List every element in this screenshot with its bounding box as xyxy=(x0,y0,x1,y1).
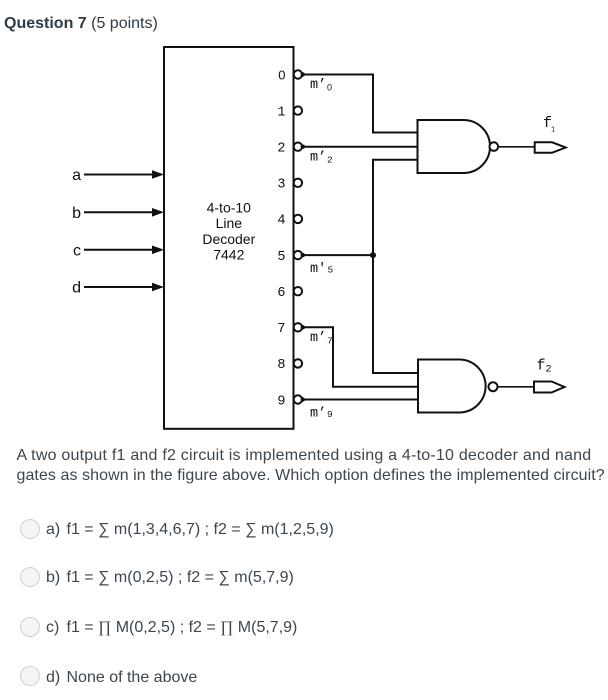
svg-text:b: b xyxy=(72,205,81,222)
svg-text:a: a xyxy=(72,167,81,184)
svg-text:0: 0 xyxy=(278,67,285,82)
svg-text:8: 8 xyxy=(277,358,285,373)
svg-text:0: 0 xyxy=(327,82,332,92)
svg-text:9: 9 xyxy=(327,409,333,420)
svg-text:7442: 7442 xyxy=(213,247,244,263)
svg-text:Decoder: Decoder xyxy=(202,231,255,247)
svg-text:m’: m’ xyxy=(310,331,326,346)
svg-text:d: d xyxy=(72,280,81,297)
svg-text:Line: Line xyxy=(216,215,243,231)
svg-text:1: 1 xyxy=(551,127,555,135)
svg-text:2: 2 xyxy=(277,142,285,157)
svg-text:m’: m’ xyxy=(310,78,326,93)
svg-text:9: 9 xyxy=(277,394,285,409)
svg-text:7: 7 xyxy=(327,335,333,346)
svg-text:5: 5 xyxy=(277,250,285,265)
svg-text:4-to-10: 4-to-10 xyxy=(207,200,252,216)
svg-text:4: 4 xyxy=(277,214,285,229)
svg-text:3: 3 xyxy=(277,178,285,193)
svg-text:m': m' xyxy=(310,262,326,277)
svg-text:f: f xyxy=(537,357,546,374)
svg-text:5: 5 xyxy=(328,265,334,276)
svg-text:2: 2 xyxy=(546,365,552,376)
svg-text:1: 1 xyxy=(277,105,285,120)
svg-text:2: 2 xyxy=(327,155,333,166)
svg-text:c: c xyxy=(73,242,81,259)
svg-text:6: 6 xyxy=(277,286,285,301)
svg-text:7: 7 xyxy=(277,322,285,337)
svg-text:m’: m’ xyxy=(310,407,326,422)
svg-text:m’: m’ xyxy=(310,150,326,165)
